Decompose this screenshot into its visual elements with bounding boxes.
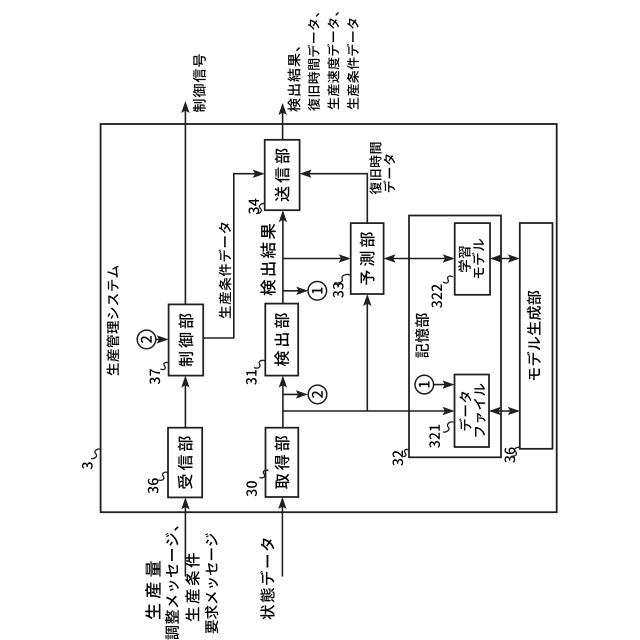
label: output line4	[347, 18, 359, 109]
ref 30 acquisition	[246, 470, 268, 496]
block 31 detector KenshutsuBu	[265, 304, 298, 376]
wire: SeigyoBu to SoshinBu production-condition-data	[203, 170, 265, 339]
label: recovery time line2	[383, 154, 395, 192]
block 37 controller SeigyoBu	[169, 304, 204, 375]
wire: bus to YosokuBu left	[363, 294, 371, 411]
ref 33 predictor	[333, 274, 350, 297]
wire: branch to circled 2b	[283, 390, 308, 398]
label: input message line2	[165, 526, 179, 639]
ref 32 storage	[393, 449, 410, 465]
label: output line1	[287, 47, 300, 112]
tilde for 3	[91, 449, 101, 459]
label: state data JotaiData	[260, 538, 275, 619]
label: recovery time line1	[369, 143, 381, 195]
circled 2 above SeigyoBu	[137, 330, 156, 349]
label: control signal SeigyoShingo	[193, 54, 206, 112]
wire: circled2 into SeigyoBu	[156, 335, 169, 343]
wire: JushinBu to SeigyoBu	[181, 376, 189, 428]
wire: YosokuBu to learning model double arrow	[384, 254, 455, 262]
outer box: production management system 3	[101, 124, 557, 512]
wire: SoshinBu output right	[278, 103, 286, 140]
wire: learning model to model generator double arrow	[490, 254, 520, 262]
ref 34 transmitter	[249, 199, 265, 214]
ref 31 detector	[246, 360, 265, 384]
ref 321 data file	[429, 422, 453, 448]
ref 37 controller	[150, 362, 169, 384]
wire: input to ShutokuBu	[278, 497, 286, 577]
wire: input to JushinBu	[181, 497, 189, 576]
label: production condition data wire	[218, 222, 231, 318]
circled 1 above data file	[415, 375, 434, 394]
label: input message line4	[205, 533, 218, 633]
label: output line3	[327, 12, 339, 109]
label: system name SeisanKanriSystem	[106, 266, 119, 376]
ref 322 learning model	[432, 276, 454, 308]
wire: branch to circled 1a	[283, 287, 308, 295]
block 32 storage KiokuBu container	[409, 216, 501, 458]
wire: branch down to YosokuBu top	[283, 254, 351, 262]
wire: YosokuBu to SoshinBu recovery-time-data	[300, 170, 368, 224]
block 30 acquisition ShutokuBu	[266, 428, 299, 497]
block 34 transmitter SoshinBu	[265, 140, 300, 210]
wire: bus down to data file	[283, 407, 455, 415]
label: input message line3	[185, 553, 199, 621]
wire: data file to model generator double arrow	[489, 407, 520, 415]
label: output line2	[308, 13, 320, 111]
block 36 model generator	[520, 223, 553, 449]
label: input message line1	[145, 561, 161, 619]
block 322 learning model	[455, 223, 490, 295]
wire: KenshutsuBu to SoshinBu	[279, 210, 287, 303]
block 36 receiver JushinBu	[168, 428, 202, 498]
block 321 data file	[455, 375, 490, 448]
ref 36 model generator	[505, 447, 520, 462]
wire: control signal output	[181, 101, 189, 304]
circled 2 near KenshutsuBu	[308, 385, 327, 404]
circled 1 near YosokuBu	[308, 281, 327, 300]
block 33 predictor YosokuBu	[351, 223, 384, 294]
wire: ShutokuBu to KenshutsuBu	[279, 376, 287, 428]
ref numeral 3	[82, 462, 93, 469]
ref 36 receiver	[148, 472, 168, 493]
wire: circled1 into data file	[434, 380, 455, 388]
label: detection result KenshutsuKekka	[260, 224, 275, 296]
label KiokuBu	[415, 313, 429, 358]
